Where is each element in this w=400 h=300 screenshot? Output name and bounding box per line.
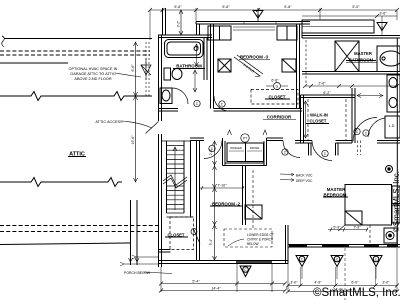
- svg-text:4'-9": 4'-9": [314, 281, 322, 285]
- svg-text:DEEP VOC: DEEP VOC: [296, 179, 313, 183]
- svg-text:©SmartMLS, Inc.: ©SmartMLS, Inc.: [392, 171, 400, 232]
- svg-text:GARAGE ATTIC TO ATTIC: GARAGE ATTIC TO ATTIC: [70, 72, 116, 76]
- svg-text:3'-0": 3'-0": [290, 281, 298, 285]
- svg-text:CLOSET: CLOSET: [310, 119, 327, 124]
- svg-text:BATHROOM: BATHROOM: [176, 64, 202, 69]
- svg-text:L.D.: L.D.: [389, 124, 396, 128]
- svg-text:5'-9": 5'-9": [333, 226, 341, 230]
- svg-text:CNTRY & PORCH: CNTRY & PORCH: [247, 238, 274, 242]
- svg-text:ATTIC ACCESS: ATTIC ACCESS: [95, 120, 123, 124]
- svg-text:BELOW: BELOW: [247, 242, 259, 246]
- svg-text:6'-2": 6'-2": [323, 91, 331, 95]
- svg-text:3'-0": 3'-0": [382, 281, 390, 285]
- svg-text:DRYER: DRYER: [250, 146, 259, 150]
- svg-text:14'-4": 14'-4": [211, 287, 221, 291]
- svg-text:CLOSET: CLOSET: [168, 233, 185, 238]
- svg-text:PT: PT: [243, 137, 247, 141]
- svg-text:PORCH BELOW: PORCH BELOW: [124, 271, 151, 275]
- svg-text:3'-6": 3'-6": [379, 12, 387, 16]
- svg-text:5'-4": 5'-4": [209, 239, 213, 245]
- svg-text:5'-0": 5'-0": [352, 5, 360, 9]
- svg-text:LOWER EDGE OF: LOWER EDGE OF: [247, 233, 274, 237]
- svg-text:6'-6": 6'-6": [131, 64, 135, 72]
- svg-text:BEDROOM: BEDROOM: [324, 193, 347, 198]
- svg-text:BEDROOM -2: BEDROOM -2: [212, 202, 241, 207]
- svg-text:BATHROOM: BATHROOM: [349, 58, 374, 63]
- svg-text:7'-9": 7'-9": [353, 226, 361, 230]
- svg-text:MASTER: MASTER: [327, 187, 346, 192]
- svg-text:6'-0": 6'-0": [351, 281, 359, 285]
- svg-text:G: G: [257, 14, 260, 18]
- svg-text:OPTIONAL HVAC SPACE IN: OPTIONAL HVAC SPACE IN: [69, 67, 118, 71]
- svg-text:16'-6": 16'-6": [131, 135, 135, 145]
- svg-text:CLOSET: CLOSET: [269, 95, 286, 100]
- svg-text:BACK VOC: BACK VOC: [296, 174, 313, 178]
- svg-text:BEDROOM -3: BEDROOM -3: [240, 55, 269, 60]
- svg-text:CORRIDOR: CORRIDOR: [267, 115, 292, 120]
- svg-text:G: G: [381, 26, 384, 30]
- svg-text:5'-6": 5'-6": [174, 5, 182, 9]
- svg-text:7'-10": 7'-10": [217, 184, 227, 188]
- svg-text:G: G: [276, 85, 279, 89]
- svg-text:3'-2": 3'-2": [177, 21, 181, 27]
- svg-text:ATTIC: ATTIC: [69, 152, 85, 158]
- svg-text:WASHER: WASHER: [230, 146, 242, 150]
- svg-text:6'-8": 6'-8": [271, 79, 279, 83]
- svg-text:2'-6": 2'-6": [318, 82, 326, 86]
- svg-text:5'-6": 5'-6": [284, 5, 292, 9]
- svg-text:ABOVE 2-ND FLOOR: ABOVE 2-ND FLOOR: [74, 77, 111, 81]
- svg-text:©SmartMLS, Inc. 2: ©SmartMLS, Inc. 2: [313, 287, 400, 299]
- svg-text:5'-4": 5'-4": [192, 280, 200, 284]
- svg-text:WALK-IN: WALK-IN: [310, 113, 328, 118]
- svg-text:5'-6": 5'-6": [222, 5, 230, 9]
- svg-text:MASTER: MASTER: [354, 51, 372, 56]
